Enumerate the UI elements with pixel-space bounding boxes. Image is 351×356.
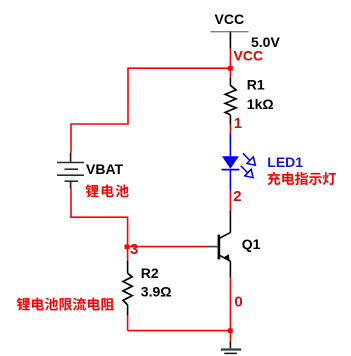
junction VCC node [228, 66, 233, 71]
LED LED1 [222, 133, 304, 191]
resistor R2 [123, 247, 171, 331]
wire base net [127, 246, 207, 248]
wire node 1 [229, 125, 231, 134]
svg-text:VBAT: VBAT [86, 161, 124, 177]
wire battery bottom to node 3 [71, 189, 128, 247]
svg-text:Q1: Q1 [242, 236, 261, 252]
svg-text:3.9Ω: 3.9Ω [141, 283, 172, 299]
wire to ground [229, 331, 231, 342]
svg-text:VCC: VCC [215, 11, 245, 27]
node 0 junction [228, 328, 233, 333]
label 锂电池限流电阻 [17, 298, 114, 311]
wire VCC rail vertical [229, 49, 231, 78]
transistor Q1 [207, 211, 261, 278]
battery VBAT [57, 153, 124, 189]
wire node 2 [229, 191, 231, 211]
svg-text:VCC: VCC [234, 47, 264, 63]
svg-text:R1: R1 [247, 76, 265, 92]
power symbol VCC [211, 11, 249, 49]
svg-text:LED1: LED1 [267, 154, 303, 170]
svg-text:R2: R2 [141, 265, 159, 281]
wire bottom net [128, 330, 231, 332]
svg-text:1: 1 [234, 115, 242, 132]
node 3 junction [125, 244, 130, 249]
label 锂电池 [86, 184, 129, 197]
wire emitter to node 0 [229, 278, 231, 331]
svg-text:1kΩ: 1kΩ [247, 96, 274, 112]
ground [221, 342, 241, 354]
svg-text:3: 3 [130, 241, 138, 258]
label 充电指示灯 [267, 172, 336, 185]
wire VCC horizontal to battery branch [71, 68, 230, 152]
svg-text:2: 2 [233, 188, 241, 205]
svg-text:0: 0 [234, 293, 242, 310]
resistor R1 [225, 76, 273, 124]
